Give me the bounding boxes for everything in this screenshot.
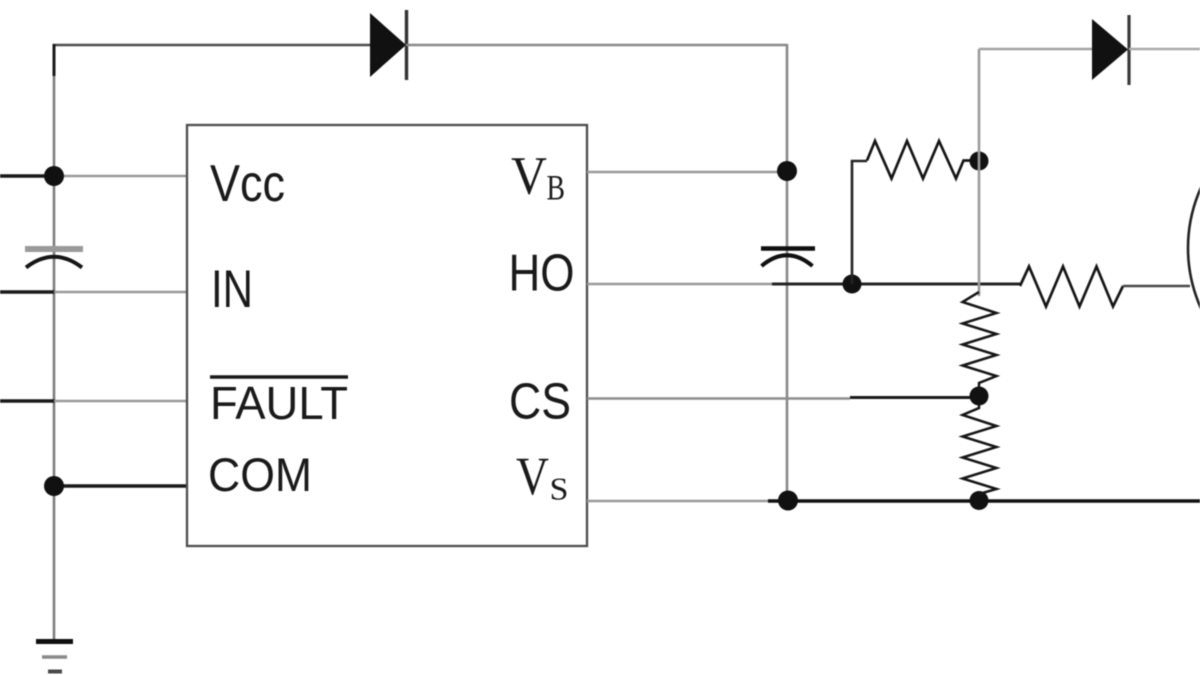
svg-text:IN: IN bbox=[211, 260, 253, 319]
wire IN stub from left edge bbox=[0, 290, 55, 294]
wire Vcc to IC bbox=[54, 175, 188, 178]
svg-text:S: S bbox=[550, 471, 569, 507]
diode D1 bootstrap (top left) bbox=[370, 10, 407, 80]
wire HO black segment to gate resistor bbox=[772, 283, 1020, 286]
node junction dot VB bbox=[777, 161, 797, 181]
op-amp U1 IC box (gate driver) bbox=[187, 125, 587, 546]
pin label VS bbox=[516, 446, 569, 507]
wire FAULT stub from left edge bbox=[0, 399, 55, 403]
wire rail x=979 from top corner down through R1 node bbox=[978, 49, 981, 296]
wire IN to IC bbox=[54, 291, 188, 294]
svg-text:Vcc: Vcc bbox=[210, 155, 285, 213]
svg-text:HO: HO bbox=[509, 244, 575, 302]
wire CS black segment bbox=[850, 396, 979, 399]
svg-text:B: B bbox=[547, 168, 566, 208]
wire top-left horizontal (Vcc rail to bootstrap diode anode) bbox=[53, 44, 370, 47]
wire top-mid horizontal (diode cathode to VB rail) bbox=[406, 44, 787, 47]
wire top-right horizontal to diode D2 bbox=[979, 48, 1092, 51]
node junction dot COM rail bbox=[44, 476, 64, 496]
svg-text:V: V bbox=[516, 446, 549, 506]
resistor R3 (vertical, lower of divider) bbox=[963, 404, 997, 494]
wire VS pin grey segment bbox=[587, 500, 770, 503]
wire vertical from HO node up to desat resistor bbox=[852, 161, 867, 284]
wire COM to IC bbox=[54, 484, 188, 487]
wire VB pin to rail bbox=[587, 171, 787, 174]
resistor R2 (vertical, upper of divider) bbox=[963, 292, 997, 390]
wire FAULT to IC bbox=[54, 400, 188, 403]
ground symbol bbox=[36, 642, 73, 672]
capacitor C1 (Vcc decoupling, left) bbox=[25, 249, 83, 268]
pin label VB bbox=[511, 146, 565, 208]
capacitor C2 bootstrap (right) bbox=[761, 249, 815, 267]
wire gate resistor to transistor circle bbox=[1123, 285, 1190, 288]
wire right VB/VS rail vertical x=787 bbox=[786, 44, 789, 501]
node junction dot VS-divider bbox=[970, 491, 989, 510]
svg-text:CS: CS bbox=[509, 373, 571, 430]
resistor R4 (gate resistor, horizontal) bbox=[1020, 267, 1123, 307]
diode D2 (top right) bbox=[1092, 15, 1129, 85]
wire Vcc stub from left edge bbox=[0, 174, 55, 178]
wire HO pin grey segment bbox=[587, 283, 772, 286]
wire VS black segment to right edge bbox=[768, 499, 1200, 503]
wire from D2 cathode to right edge bbox=[1129, 48, 1200, 51]
node junction dot CS divider bbox=[970, 387, 989, 406]
svg-text:V: V bbox=[511, 146, 547, 206]
resistor R1 (desat, horizontal top) bbox=[867, 141, 971, 179]
node junction dot VS-cap rail bbox=[778, 491, 798, 511]
wire CS pin grey segment bbox=[587, 397, 850, 400]
wire left rail vertical x=54 bbox=[53, 44, 56, 640]
node junction dot Vcc rail bbox=[44, 166, 64, 186]
pin label FAULT with overline bbox=[210, 377, 348, 429]
transistor Q1 envelope circle (clipped at right edge) bbox=[1188, 101, 1200, 395]
node junction dot R1 right bbox=[970, 152, 989, 171]
svg-text:FAULT: FAULT bbox=[210, 377, 348, 429]
svg-text:COM: COM bbox=[208, 448, 312, 501]
node junction dot HO bbox=[843, 275, 862, 294]
